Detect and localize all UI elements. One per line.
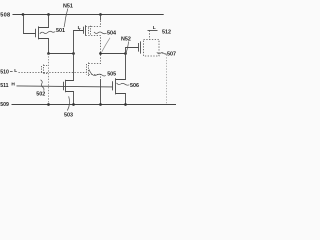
squiggle leader 502 [41, 80, 44, 91]
squiggle leader 504 [94, 32, 107, 34]
leader line 503 [67, 96, 69, 110]
transistor 501 channel [38, 26, 40, 39]
wire: 506 drain lead up to node N52 [116, 54, 126, 80]
transistor 503 gate bar [63, 82, 65, 90]
transistor 504 dashed partner channel [90, 26, 92, 36]
svg-text:503: 503 [64, 112, 73, 118]
wire dashed: 504 drain lead [86, 20, 101, 27]
svg-text:N52: N52 [121, 36, 131, 42]
wire: 503 drain lead up to node N51 [66, 54, 74, 81]
wire: 501 drain lead up to 508 [39, 15, 49, 28]
wire: node line N51 (y53.4) [49, 53, 74, 55]
wire dashed: 510 word line [19, 72, 87, 74]
wire dashed: 504 source lead down to node N52 [86, 36, 101, 54]
svg-text:510: 510 [0, 69, 9, 75]
leader tail near 504 [102, 38, 110, 52]
wire: 504 drain stub to 508 [100, 15, 102, 21]
transistor 505 dashed channel [88, 63, 90, 77]
node junction on 509 at x73.5 [72, 103, 75, 106]
svg-text:506: 506 [130, 83, 139, 89]
transistor 502 dashed channel [43, 65, 45, 75]
node junction at 100.8,53.2 [99, 52, 102, 55]
wire: column from 505 down to 509 [100, 79, 102, 105]
transistor 507 channel [140, 41, 142, 53]
squiggle leader 505 [89, 70, 106, 76]
svg-text:501: 501 [56, 28, 65, 34]
svg-text:H: H [11, 81, 15, 87]
wire: node line N52 (y53.2) [101, 53, 126, 55]
node junction at 125.3,53.2 [124, 52, 127, 55]
node junction on 508 at x100.8 [99, 13, 102, 16]
svg-text:L: L [153, 25, 156, 31]
dash after 510 [10, 71, 13, 73]
wire: ground line 509 [12, 104, 177, 106]
transistor 506 channel [115, 78, 117, 94]
transistor 502 dashed gate bar [41, 66, 43, 73]
transistor 504 channel [85, 25, 87, 36]
wire: gate feed of 507 from node N52 [126, 48, 139, 54]
dashed box of 507 [144, 40, 160, 57]
transistor 503 channel [65, 80, 67, 93]
wire dashed: 507 source lead to right column down to 509 [159, 54, 167, 105]
svg-text:509: 509 [0, 102, 9, 108]
squiggle leader 506 [117, 83, 130, 85]
wire dashed: 502 drain jog [44, 65, 49, 67]
wire dashed: 505 drain lead up to node N52 [89, 54, 101, 64]
node junction on 509 at x100.8 [99, 103, 102, 106]
leader line N51 [64, 9, 68, 28]
svg-text:L: L [78, 25, 81, 31]
squiggle leader 501 [40, 31, 56, 34]
wire: node N51 up to gate of 504 [74, 31, 84, 54]
node junction on 508 at x23 [22, 13, 25, 16]
wire dashed: 502 source jog [44, 73, 49, 75]
wire: 503 source lead down to 509 [66, 92, 74, 105]
wire: 511 word line to gates of 503/506 [17, 86, 113, 87]
transistor 504 dashed partner gate bar [88, 27, 90, 34]
svg-text:508: 508 [0, 13, 10, 19]
node junction on 509 at x48.3 [47, 103, 50, 106]
svg-text:505: 505 [107, 71, 116, 77]
wire: 512 lead tick [148, 30, 158, 32]
node junction on 509 at x125.3 [124, 103, 127, 106]
wire dashed: 512 drop into 507 box [149, 31, 151, 40]
transistor 506 gate bar [112, 81, 114, 90]
wire dashed: transistor 502 branch down from node N51 to 509 [48, 54, 50, 105]
wire dashed: 505 source lead down [89, 75, 101, 80]
transistor 507 gate bar [138, 43, 140, 52]
svg-text:512: 512 [162, 30, 171, 36]
wire: 506 source lead down to 509 [116, 94, 126, 105]
node junction on 508 at x48 [47, 13, 50, 16]
svg-text:511: 511 [0, 83, 8, 89]
wire: gate feed of Q501 from 508 [24, 15, 36, 34]
transistor 504 gate bar [83, 27, 85, 34]
svg-text:L: L [14, 68, 17, 74]
squiggle leader 507 [157, 52, 167, 54]
transistor 501 gate bar [35, 29, 37, 37]
leader line N52 [126, 42, 128, 53]
svg-text:502: 502 [36, 92, 45, 98]
svg-text:504: 504 [107, 30, 116, 36]
wire: supply line 508 [13, 14, 164, 16]
node junction at 73.5,53.4 [72, 52, 75, 55]
transistor 505 dashed gate bar [86, 64, 88, 75]
node junction at 48,53.4 [47, 52, 50, 55]
wire: 501 source lead down to node N51 [39, 39, 49, 54]
svg-text:507: 507 [167, 51, 176, 57]
